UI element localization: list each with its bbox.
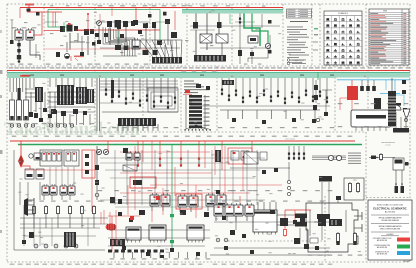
svg-text:1991-06-3: 1991-06-3 <box>403 261 410 263</box>
svg-text:30: 30 <box>364 76 366 78</box>
svg-text:xxxx xxxxx: xxxx xxxxx <box>285 139 295 141</box>
svg-text:CUSTOMER CONNECT FLOW: CUSTOMER CONNECT FLOW <box>373 238 393 240</box>
svg-text:ITEM: ITEM <box>383 11 387 13</box>
svg-text:xxx xxxx: xxx xxxx <box>385 145 391 147</box>
svg-text:LEGEND: LEGEND <box>387 234 395 236</box>
svg-text:SYMBOLS: SYMBOLS <box>338 13 348 15</box>
svg-text:xxxx xxx xxxxx xxx: xxxx xxx xxxxx xxx <box>381 142 394 144</box>
svg-text:ELECTRICAL SCHEMATIC: ELECTRICAL SCHEMATIC <box>373 206 407 210</box>
svg-text:DISTRIBUTION FLOW: DISTRIBUTION FLOW <box>375 252 389 254</box>
